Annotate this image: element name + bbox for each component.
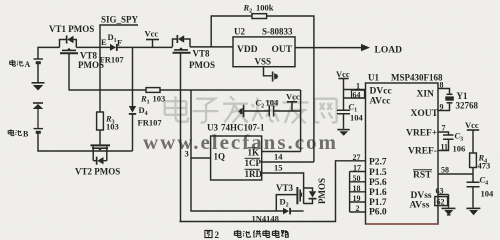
- capacitor C4: [467, 182, 480, 186]
- battery B: [34, 109, 44, 132]
- wire U1 box bottom reddish scan tint: [366, 223, 438, 225]
- resistor R3: [97, 112, 104, 130]
- wire U2 VSS to ground: [264, 67, 272, 76]
- wire D4 cathode to VT2 right: [132, 114, 134, 151]
- caption 图2 电池供电电路: [205, 230, 212, 237]
- crystal Y1: [447, 94, 453, 103]
- resistor R4: [470, 153, 477, 168]
- wire RST pin 58 to R4/C4 junction: [438, 173, 473, 175]
- wire DVss pin 63: [438, 194, 449, 196]
- wire 1CP pin: [262, 161, 314, 163]
- transistor VT1 (PMOS, body diode loop above): [60, 40, 79, 54]
- capacitor C1: [337, 110, 350, 114]
- wire 1Q pin 3: [191, 90, 211, 158]
- watermark chinese characters 电子发烧友网: [165, 96, 337, 123]
- transistor VT2 (PMOS, body diode loop below): [91, 145, 111, 160]
- wire R3 bottom to VT2: [99, 130, 101, 145]
- wire Vcc tap near D1: [152, 40, 154, 48]
- diode D4 FR107: [129, 106, 136, 115]
- ground DVss/AVss: [442, 208, 456, 216]
- ground C4: [466, 208, 480, 216]
- power Vcc symbol near D1: [146, 39, 159, 41]
- wire 1RD pin 15 to VT3 drain: [262, 173, 304, 188]
- wire VT8#2 gate down to rail and to bottom rail: [180, 53, 182, 222]
- node rail: gate rail with R1: [69, 89, 301, 91]
- wire VT1 gate down to rail: [68, 54, 70, 91]
- transistor VT8 second (PMOS near Vcc): [173, 39, 191, 53]
- node battery B top symbol: [33, 102, 43, 109]
- wire pin 64 AVcc: [344, 97, 366, 99]
- wire node E down to R3: [99, 47, 101, 112]
- scan noise overlay: [0, 0, 1, 1]
- wire Vcc to R4: [472, 130, 474, 153]
- wire XIN pin 8 to crystal: [438, 89, 450, 95]
- wire D2 cathode to VT3 source: [290, 210, 304, 212]
- wire C3 to VREF- pin 11: [438, 139, 449, 150]
- wire crystal to XOUT pin 9: [438, 103, 450, 110]
- wire 1K pin 14: [262, 151, 301, 153]
- wire SIG_SPY underline and drop to node E: [100, 25, 138, 47]
- wire rail end down to 1K: [300, 90, 302, 152]
- wire pins 63/62 down to ground: [448, 195, 450, 208]
- ground C2 left: [238, 105, 244, 117]
- wire Vcc to D4 anode: [132, 47, 134, 106]
- wire Vcc stem to U1 pins: [343, 79, 345, 111]
- wire VT3 gate loop: [276, 195, 294, 211]
- resistor R1: [146, 88, 160, 93]
- wire U2 OUT to LOAD: [295, 47, 361, 49]
- wire battery B to VT2: [38, 133, 133, 151]
- wire R2 right to OUT vertical: [267, 16, 314, 48]
- wire R4 to C4: [472, 168, 474, 183]
- wire 1Q drop to bottom inner wire: [191, 158, 283, 211]
- wire pin ladder bus P1.5..P6.0: [350, 172, 366, 213]
- wire C1 to ground: [343, 114, 345, 129]
- battery A: [34, 59, 44, 82]
- diode D1 FR107: [110, 44, 118, 51]
- power Vcc symbol R4: [467, 129, 479, 131]
- wire OUT vertical down to 1CP: [313, 48, 315, 162]
- wire D1 cathode to VT8#2: [117, 46, 173, 48]
- wire C4 to ground: [472, 187, 474, 208]
- wire C2 row: [244, 110, 301, 112]
- transistor VT3 (PMOS vertical): [297, 187, 312, 204]
- arrow LOAD: [361, 44, 370, 51]
- wire R2 loop left: [211, 16, 252, 47]
- resistor R2: [252, 14, 267, 19]
- ground battery A: [32, 82, 45, 91]
- label 电池B: [8, 129, 21, 135]
- wire VT8#2 to U2 VDD: [190, 46, 233, 48]
- wire Vcc stem C2 row: [291, 102, 293, 111]
- wire VT1 drain to node E: [76, 46, 110, 48]
- wire battery A top to VT1: [38, 47, 60, 59]
- pin 62 box: [435, 197, 448, 206]
- ground C1: [337, 129, 349, 136]
- watermark url: [143, 130, 337, 154]
- pin 64 box: [352, 90, 365, 98]
- wire VREF+ pin 7 to C3: [438, 132, 449, 135]
- wire bottom outer to P2.7: [180, 161, 366, 222]
- power Vcc symbol U1 supply: [338, 78, 348, 80]
- label 电池A: [10, 60, 23, 66]
- capacitor C3: [443, 135, 454, 139]
- capacitor C2: [269, 106, 273, 117]
- IC U3 74HC107-1 box: [211, 136, 262, 180]
- IC U1 MSP430F168 box: [366, 83, 439, 224]
- ground U2 VSS: [272, 72, 279, 82]
- diode D2 1N4148: [283, 208, 291, 215]
- power Vcc symbol C2 row: [287, 101, 297, 103]
- wire VT3 gate plate lead: [294, 194, 297, 196]
- wire pin 1 DVcc: [344, 89, 366, 91]
- IC U2 S-80833 box: [233, 37, 295, 67]
